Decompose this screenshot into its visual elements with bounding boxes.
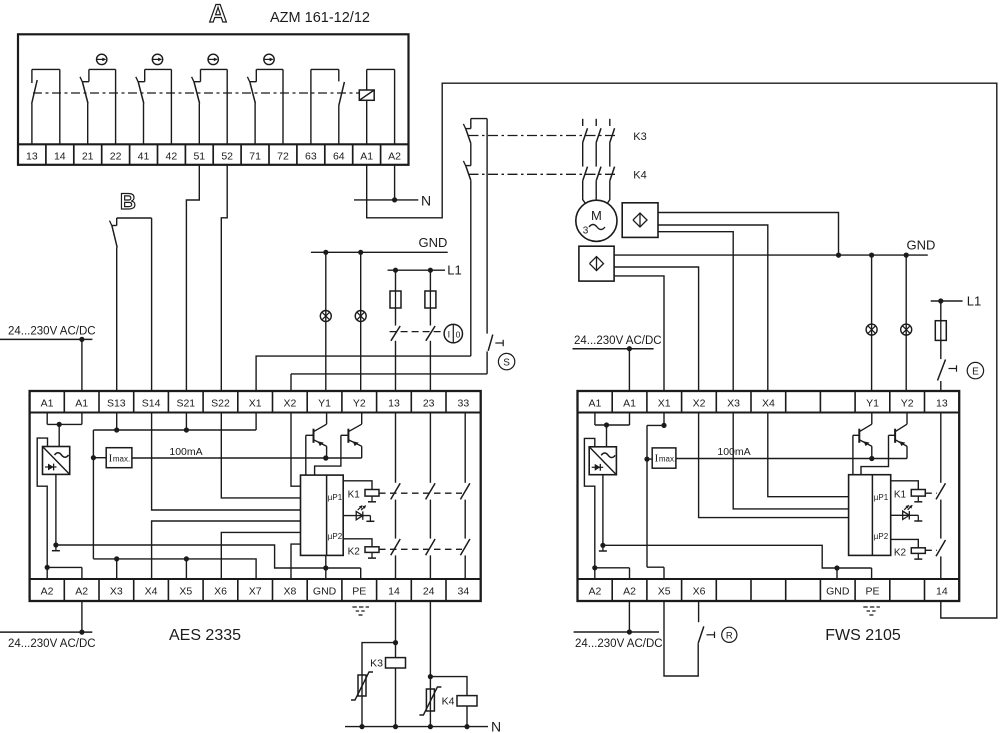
wire X1 to X5 and Imax <box>644 413 666 580</box>
svg-text:FWS 2105: FWS 2105 <box>825 627 901 644</box>
label L1 right <box>967 294 981 309</box>
config rail X3-X5-X7 <box>93 556 256 579</box>
wire X4 to uP (FWS) <box>768 413 849 497</box>
wire PE drop (AES) <box>360 568 362 579</box>
wire GND terminal stub (AES) <box>325 555 327 579</box>
wire GND terminal stub (FWS) <box>836 568 838 579</box>
svg-text:A2: A2 <box>623 585 636 597</box>
earth symbol PE (FWS) <box>863 607 880 615</box>
contact link dashed K2 (AES) <box>379 548 462 550</box>
wire PSU input bracket (AES) <box>37 438 47 567</box>
node N line <box>354 197 418 202</box>
output contact path 13-14 (FWS) <box>936 413 946 580</box>
transistor Q2 (AES) <box>341 413 362 458</box>
link dashed K3 <box>469 135 617 137</box>
relay coil A1-A2 box A <box>359 69 394 144</box>
0V rail (AES) <box>56 545 361 571</box>
svg-text:13: 13 <box>388 397 400 409</box>
relay coil K3f (FWS K1) <box>894 489 925 502</box>
contact 21-22 (NC) box A <box>80 69 116 144</box>
standstill monitor module FWS 2105 housing and terminals <box>578 391 960 601</box>
wire X4 to uP <box>152 521 301 579</box>
relay coil K3 <box>370 658 405 670</box>
relay coil K4 <box>442 696 477 708</box>
varistor RV1 branch <box>362 643 396 727</box>
contactor K3/K4 main pole 3 <box>610 119 615 181</box>
relay coil K4f (FWS K2) <box>894 548 925 560</box>
svg-text:Y2: Y2 <box>353 397 366 409</box>
varistor RV1 <box>351 672 373 700</box>
label B (outlined letter) <box>120 189 136 214</box>
wire lamp H3 to Y1 (FWS) <box>871 255 873 391</box>
svg-text:K2: K2 <box>348 547 361 558</box>
wire 52 to S22 <box>221 165 227 391</box>
label R circled <box>722 627 737 642</box>
wire PSU input bracket (FWS) <box>584 438 594 567</box>
contact 63-64 (NO) box A <box>311 69 345 144</box>
svg-text:µP1: µP1 <box>874 493 889 502</box>
svg-text:21: 21 <box>82 151 94 163</box>
wire X3 to uP (FWS) <box>733 413 848 509</box>
wire X6 to uP <box>221 532 300 579</box>
actuator symbol above 51-52 <box>208 54 218 64</box>
label A (outlined letter) <box>209 0 227 28</box>
wire fuse F1 to switch <box>395 308 397 326</box>
svg-text:42: 42 <box>166 151 178 163</box>
current limiter Imax (FWS) <box>652 448 676 468</box>
svg-text:X3: X3 <box>727 397 740 409</box>
svg-text:51: 51 <box>193 151 205 163</box>
wire chain top link <box>471 118 487 120</box>
0V rail (FWS) <box>603 545 872 570</box>
contact link dashed K1 (AES) <box>379 492 462 494</box>
switch pole 2 (23) <box>426 326 435 391</box>
svg-text:3: 3 <box>583 226 589 237</box>
input rail S13-S21-X1 <box>93 413 256 433</box>
wire pole1 to motor <box>583 181 586 204</box>
svg-text:13: 13 <box>26 151 38 163</box>
push button S <box>487 335 503 374</box>
label E circled <box>967 362 983 378</box>
wire S button to X2 <box>291 374 487 391</box>
svg-text:µP1: µP1 <box>328 493 343 502</box>
supply label FWS top <box>573 335 662 391</box>
svg-text:X8: X8 <box>283 585 296 597</box>
svg-text:µP2: µP2 <box>328 532 343 541</box>
svg-text:K3: K3 <box>370 658 383 670</box>
wire sensor B1 pin1 to GND rail <box>658 213 841 258</box>
actuator symbol above 41-42 <box>152 54 162 64</box>
wire L1 to fuse F1 <box>395 270 397 291</box>
fuse F1 <box>390 291 401 308</box>
svg-text:R: R <box>726 630 733 641</box>
label GND left <box>419 235 448 250</box>
wire sensor B1 pin2 to X4 <box>658 225 768 391</box>
output contact path 23-24 (AES) <box>426 413 436 580</box>
svg-text:24...230V AC/DC: 24...230V AC/DC <box>8 326 96 338</box>
label K3 <box>633 131 646 143</box>
svg-text:S13: S13 <box>107 397 126 409</box>
svg-text:24...230V AC/DC: 24...230V AC/DC <box>8 638 96 650</box>
svg-text:X6: X6 <box>214 585 227 597</box>
lamp H2 on Y2 <box>355 311 366 322</box>
node N bottom line <box>345 724 488 729</box>
transistor Q1 (AES) <box>306 413 329 461</box>
wire K4 coil to N <box>466 706 468 727</box>
supply label top-left <box>0 326 96 391</box>
wire A2 to N <box>394 165 396 200</box>
svg-text:13: 13 <box>936 397 948 409</box>
wire pole3 to motor <box>607 181 610 204</box>
svg-text:L1: L1 <box>447 263 461 278</box>
svg-text:µP2: µP2 <box>874 532 889 541</box>
svg-text:X2: X2 <box>693 397 706 409</box>
svg-text:GND: GND <box>826 585 850 597</box>
wire K4 branch <box>430 677 467 696</box>
label S circled <box>498 353 514 369</box>
svg-text:X4: X4 <box>145 585 158 597</box>
wire 51 to S21 <box>186 165 199 391</box>
wire lamp H4 to Y2 (FWS) <box>905 255 907 391</box>
contact 41-42 (NC) box A <box>136 69 172 144</box>
LED D2 (FWS) <box>891 505 923 521</box>
link dashed K4 <box>469 173 617 175</box>
svg-text:N: N <box>421 192 431 208</box>
wire Q2 base to uP <box>315 435 341 475</box>
label 100mA (AES) <box>169 446 202 458</box>
svg-text:100mA: 100mA <box>717 446 750 458</box>
contact 13-14 (NO) box A <box>32 69 60 144</box>
svg-text:24...230V AC/DC: 24...230V AC/DC <box>575 638 663 650</box>
wire uP to K2 (FWS) <box>891 539 919 547</box>
svg-text:Y1: Y1 <box>866 397 879 409</box>
wire PSU output (AES) <box>52 474 60 550</box>
svg-text:A2: A2 <box>41 585 54 597</box>
svg-text:K2: K2 <box>894 548 907 559</box>
wire lamp H2 to Y2 <box>360 252 362 391</box>
svg-text:14: 14 <box>388 585 400 597</box>
svg-text:X1: X1 <box>658 397 671 409</box>
100mA rail (FWS) <box>676 456 907 461</box>
svg-text:23: 23 <box>423 397 435 409</box>
svg-text:L1: L1 <box>967 294 981 309</box>
wire X6 to R button <box>698 601 700 622</box>
wire A1 supply loop (box A A1 - top - right edge - FWS 14) <box>367 83 997 618</box>
svg-text:A2: A2 <box>388 151 401 163</box>
push button E <box>938 360 957 392</box>
power supply U3 (FWS) <box>589 447 616 475</box>
svg-text:A1: A1 <box>623 397 636 409</box>
fuse F2 <box>425 291 436 308</box>
svg-text:PE: PE <box>865 585 879 597</box>
node L1 left rail <box>388 268 445 273</box>
svg-text:S22: S22 <box>211 397 230 409</box>
svg-text:E: E <box>972 366 979 377</box>
enclosure box A AZM 161-12/12 outline <box>18 34 409 165</box>
wire uP to K1 (AES) <box>343 481 372 490</box>
wire L1 to fuse F2 <box>429 270 431 291</box>
svg-text:63: 63 <box>305 151 317 163</box>
contact 71-72 (NC) box A <box>247 69 283 144</box>
node A2 join (AES) <box>45 565 82 579</box>
supply label bottom-left <box>0 601 96 650</box>
svg-text:GND: GND <box>907 238 936 253</box>
lamp H4 on Y2 FWS <box>901 324 912 335</box>
svg-text:34: 34 <box>458 585 470 597</box>
wire PE drop (FWS) <box>871 568 873 579</box>
terminal strip box A (13 14 21 22 41 42 51 52 71 72 63 64 A1 A2) <box>18 144 409 165</box>
label K4 <box>633 170 646 182</box>
sensor B2 (proximity) <box>579 246 614 281</box>
wire rail to Imax <box>91 430 106 559</box>
microprocessor U4 uP1/uP2 (FWS) <box>849 475 891 556</box>
svg-text:X6: X6 <box>693 585 706 597</box>
svg-text:24...230V AC/DC: 24...230V AC/DC <box>574 335 662 347</box>
svg-text:N: N <box>491 719 501 733</box>
svg-text:K1: K1 <box>894 489 907 500</box>
selector I-0 symbol <box>444 324 462 342</box>
label FWS 2105 <box>825 627 901 644</box>
wire fuse F3 to switch E <box>940 340 942 359</box>
LED D1 (AES) <box>343 506 374 522</box>
wire sensor B2 pin2 to X2 <box>614 267 699 391</box>
svg-text:A: A <box>209 0 227 28</box>
wire L1 to fuse F3 <box>940 301 942 321</box>
svg-text:71: 71 <box>249 151 261 163</box>
wire lamp H1 to Y1 <box>325 252 327 391</box>
svg-text:A1: A1 <box>75 397 88 409</box>
transistor Q3 (FWS) <box>853 413 872 459</box>
wire 14 to K3 coil <box>393 601 398 658</box>
svg-text:Y1: Y1 <box>318 397 331 409</box>
wire K3 coil to N <box>395 668 397 727</box>
svg-text:X7: X7 <box>249 585 262 597</box>
contact link dashed K2 (FWS) <box>925 549 937 551</box>
svg-text:64: 64 <box>333 151 345 163</box>
safety relay module AES 2335 housing and terminals <box>30 391 481 601</box>
motor M1 3-phase <box>576 200 617 241</box>
wire X2 to uP (FWS) <box>699 413 849 518</box>
wire sensor B1 pin3 to X3 <box>658 232 733 391</box>
GND rail right <box>614 253 928 258</box>
actuator symbol above 21-22 <box>97 54 107 64</box>
wire pole2 to motor <box>595 181 597 200</box>
wire uP to K2 (AES) <box>343 539 372 547</box>
aux mirror contacts K3/K4 chain to X1 <box>256 119 471 391</box>
power supply U1 (AES) <box>43 447 70 475</box>
wire A1 pair join (AES) <box>47 413 82 447</box>
wire S13 drop <box>116 413 118 431</box>
svg-text:A2: A2 <box>588 585 601 597</box>
svg-text:K1: K1 <box>348 489 361 500</box>
label N bottom <box>491 719 501 733</box>
svg-text:52: 52 <box>221 151 233 163</box>
svg-text:M: M <box>591 208 602 223</box>
transistor Q4 (FWS) <box>889 413 908 459</box>
wire Q1 base to uP <box>305 435 307 475</box>
supply label FWS bottom <box>574 601 663 650</box>
100mA rail (AES) <box>132 455 362 460</box>
contactor K3/K4 main pole 2 <box>596 119 601 181</box>
svg-text:A1: A1 <box>41 397 54 409</box>
svg-text:B: B <box>120 189 136 214</box>
svg-text:max.: max. <box>659 455 676 464</box>
svg-text:14: 14 <box>54 151 66 163</box>
relay coil K2 (AES) <box>348 547 379 559</box>
output contact path 33-34 (AES) <box>460 413 470 580</box>
svg-text:GND: GND <box>313 585 337 597</box>
label L1 left <box>447 263 461 278</box>
svg-text:AZM 161-12/12: AZM 161-12/12 <box>270 10 370 26</box>
output contact path 13-14 (AES) <box>391 413 401 580</box>
svg-text:72: 72 <box>277 151 289 163</box>
svg-text:X1: X1 <box>249 397 262 409</box>
svg-text:100mA: 100mA <box>169 446 202 458</box>
title AZM 161-12/12 <box>270 10 370 26</box>
relay coil K1 (AES) <box>348 489 379 502</box>
earth symbol PE (AES) <box>352 607 369 615</box>
svg-text:K4: K4 <box>442 696 455 708</box>
wire A1 pair join (FWS) <box>595 413 630 447</box>
svg-text:24: 24 <box>423 585 435 597</box>
fuse F3 <box>935 321 946 341</box>
svg-text:X4: X4 <box>762 397 775 409</box>
svg-text:0: 0 <box>456 329 461 339</box>
svg-text:S21: S21 <box>176 397 195 409</box>
svg-text:14: 14 <box>936 585 948 597</box>
label 100mA (FWS) <box>717 446 750 458</box>
node L1 right <box>931 298 963 303</box>
svg-text:A1: A1 <box>360 151 373 163</box>
svg-text:S14: S14 <box>142 397 161 409</box>
wire 24 to K4 <box>428 601 433 727</box>
node A2 join (FWS) <box>592 565 629 579</box>
wire sensor B2 pin3 to X1 <box>614 276 664 391</box>
wire R button to X5 <box>664 601 698 676</box>
microprocessor U2 uP1/uP2 (AES) <box>301 475 344 555</box>
current limiter Imax (AES) <box>106 448 132 468</box>
actuator symbol above 71-72 <box>264 54 274 64</box>
wire S14 to uP <box>152 413 301 511</box>
wire Q4 base to uP <box>861 435 889 474</box>
contactor K3/K4 main pole 1 <box>583 119 588 181</box>
label N <box>421 192 431 208</box>
wire S22 to uP <box>221 413 300 498</box>
svg-text:GND: GND <box>419 235 448 250</box>
wire to S button <box>486 119 488 334</box>
contact B (sensor) between S13 and S14 <box>110 218 152 391</box>
lamp H3 on Y1 FWS <box>866 324 877 335</box>
push button R <box>698 626 714 643</box>
lamp H1 on Y1 <box>320 311 331 322</box>
svg-text:X5: X5 <box>658 585 671 597</box>
svg-text:AES 2335: AES 2335 <box>169 627 241 644</box>
mechanical link dashed line box A <box>33 92 359 94</box>
wire X8 to uP <box>291 544 301 579</box>
label AES 2335 <box>169 627 241 644</box>
svg-text:K4: K4 <box>633 170 646 182</box>
svg-text:Y2: Y2 <box>901 397 914 409</box>
contact link dashed K1 (FWS) <box>925 492 937 494</box>
svg-text:X2: X2 <box>283 397 296 409</box>
sensor B1 (proximity) <box>622 203 658 238</box>
svg-text:S: S <box>503 357 510 368</box>
contact 51-52 (NC) box A <box>192 69 228 144</box>
wire Q3 base to uP <box>852 435 854 474</box>
label GND right <box>907 238 936 253</box>
svg-text:K3: K3 <box>633 131 646 143</box>
selector link dashed <box>390 331 445 333</box>
svg-text:max.: max. <box>113 455 130 464</box>
svg-text:22: 22 <box>110 151 122 163</box>
svg-text:X3: X3 <box>110 585 123 597</box>
svg-text:X5: X5 <box>179 585 192 597</box>
switch pole 1 (13) <box>391 326 400 391</box>
svg-text:PE: PE <box>352 585 366 597</box>
svg-text:33: 33 <box>458 397 470 409</box>
wire uP to K1 (FWS) <box>891 481 919 490</box>
svg-text:A2: A2 <box>75 585 88 597</box>
svg-text:41: 41 <box>138 151 150 163</box>
wire fuse F2 to switch <box>429 308 431 326</box>
varistor RV2 <box>419 687 441 715</box>
svg-text:A1: A1 <box>588 397 601 409</box>
svg-text:I: I <box>448 329 451 339</box>
wire X2 to uP <box>291 413 301 487</box>
GND rail left <box>311 250 448 255</box>
wire PSU output (FWS) <box>599 475 607 551</box>
